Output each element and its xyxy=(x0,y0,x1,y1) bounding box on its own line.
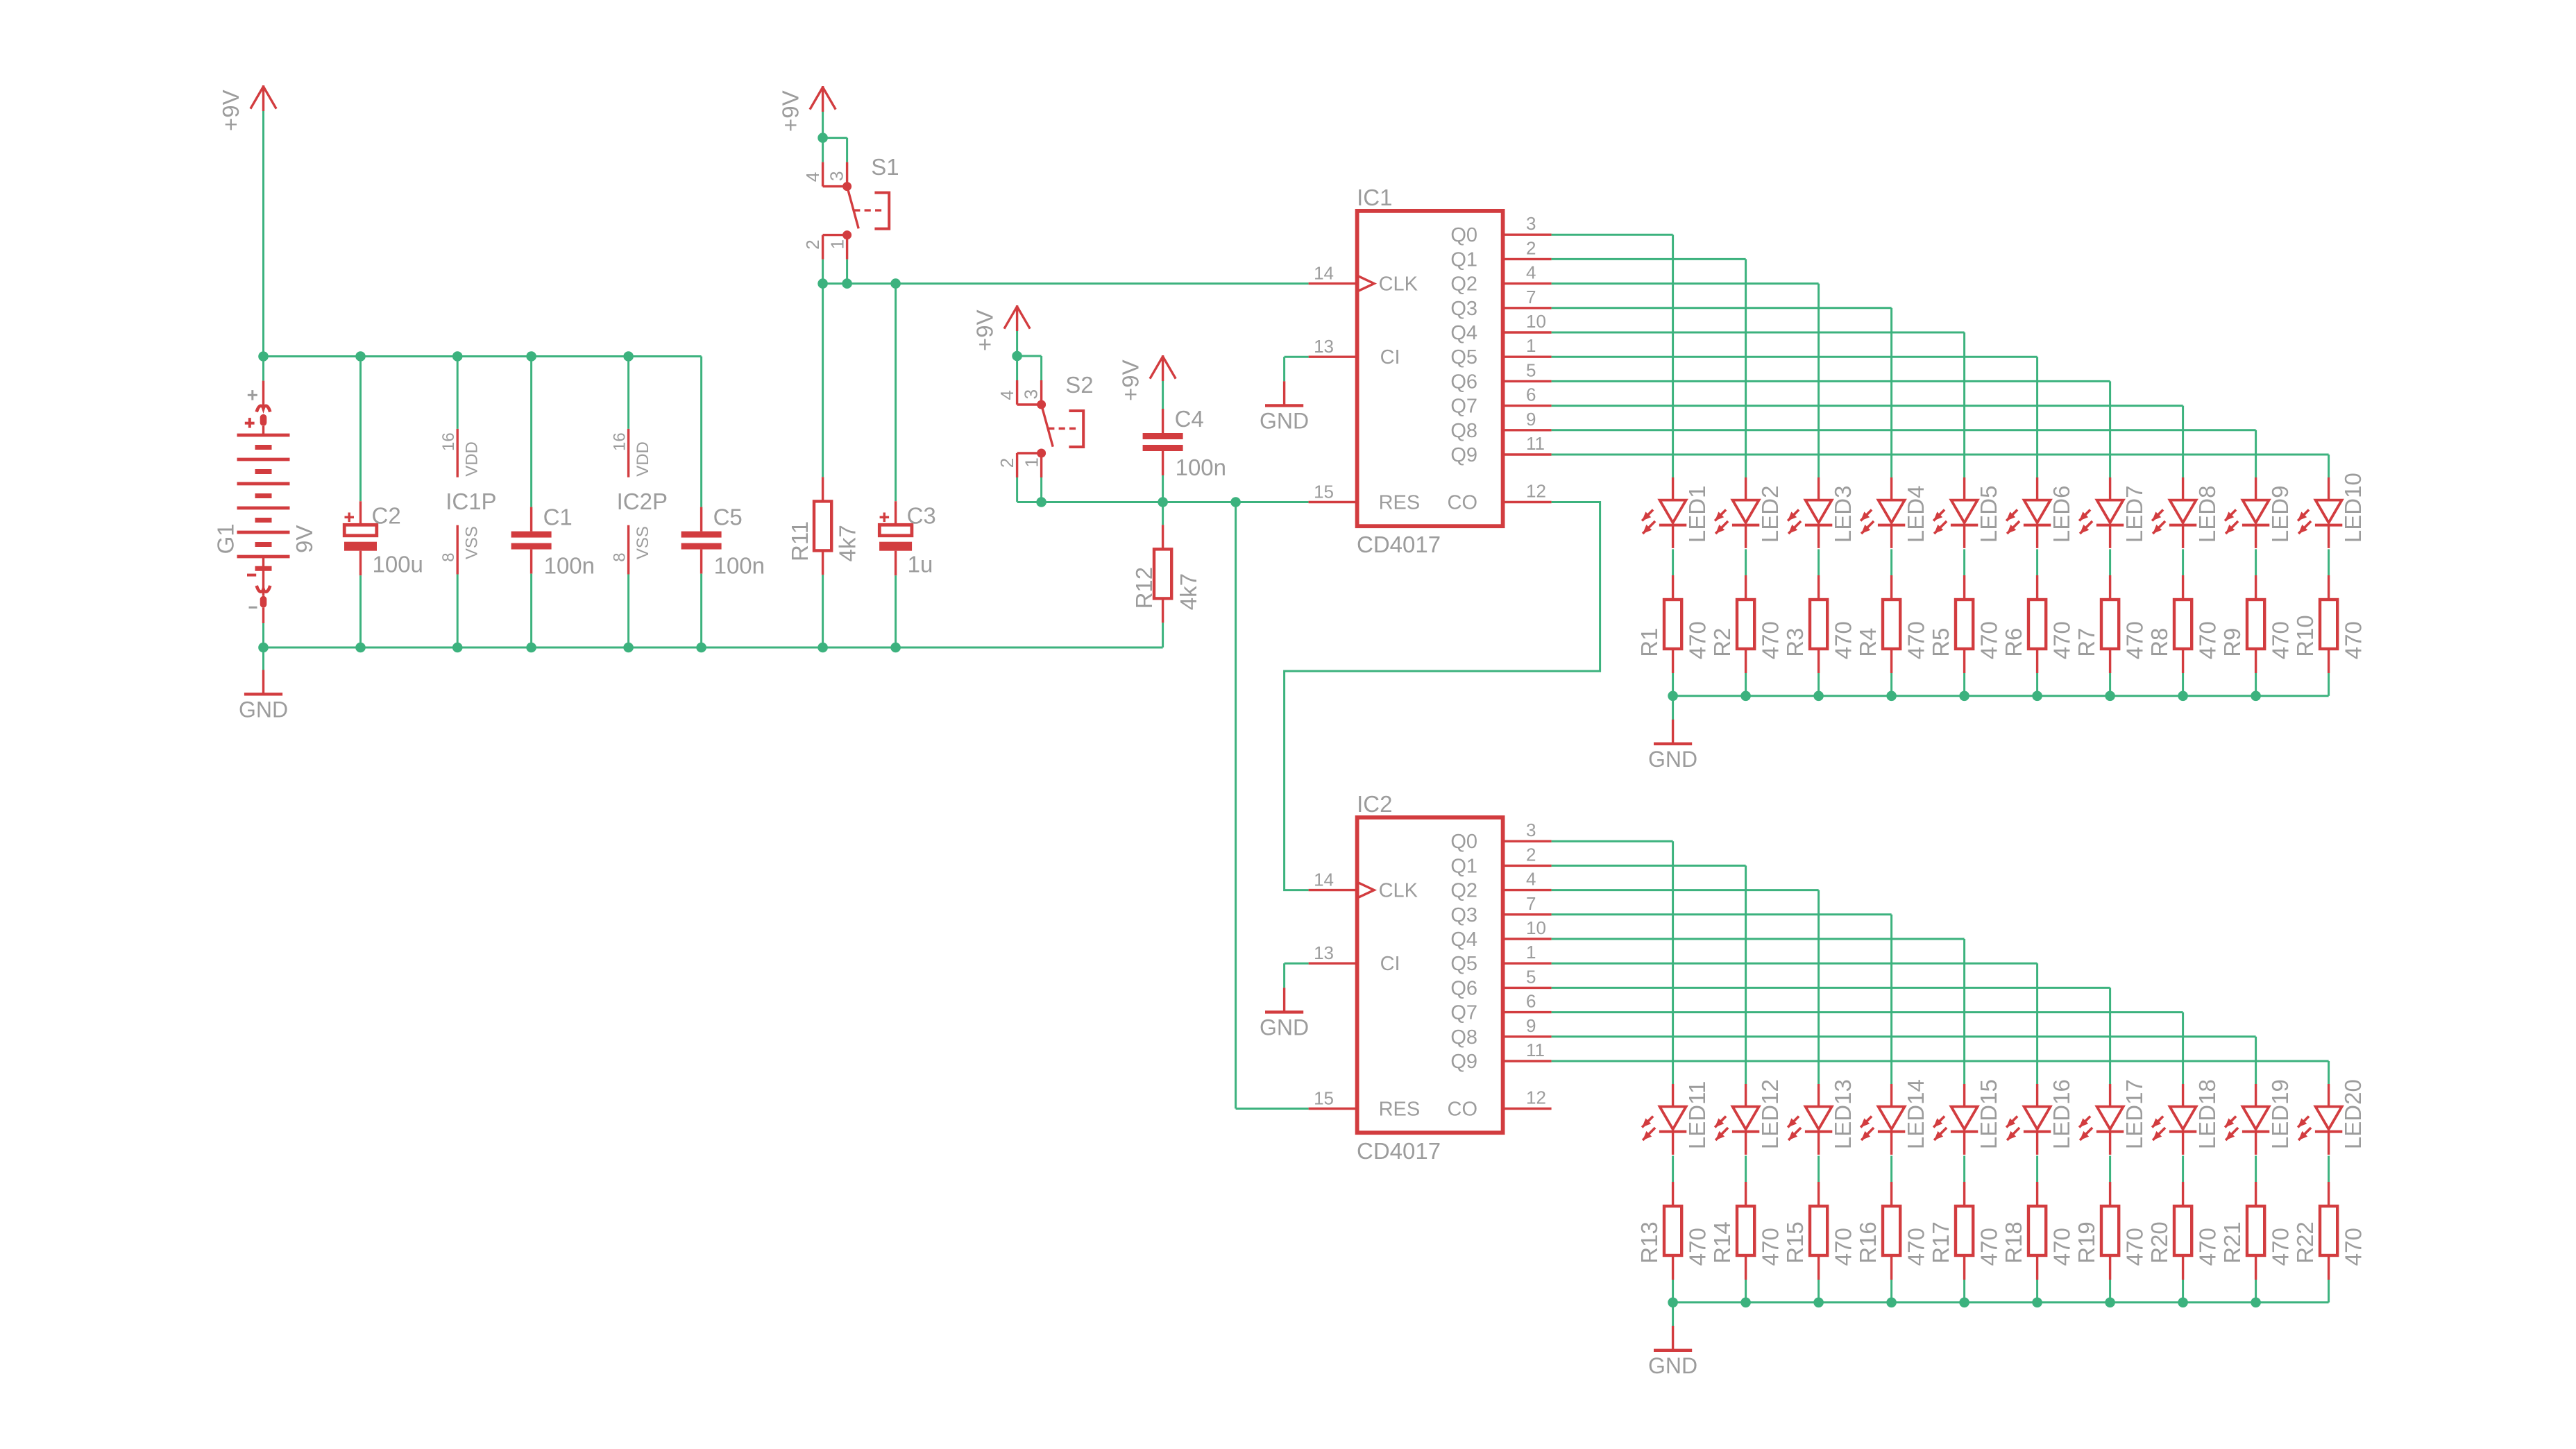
svg-text:100n: 100n xyxy=(544,553,595,579)
svg-text:R2: R2 xyxy=(1709,628,1735,657)
ground at IC2 CI xyxy=(1260,963,1309,1040)
svg-text:R5: R5 xyxy=(1928,628,1954,657)
svg-text:Q5: Q5 xyxy=(1450,346,1477,368)
svg-text:4: 4 xyxy=(1526,869,1536,890)
svg-text:IC1P: IC1P xyxy=(446,489,496,514)
LED LED16 xyxy=(2006,1079,2074,1155)
LED LED6 xyxy=(2006,477,2074,548)
LED LED19 xyxy=(2225,1079,2293,1155)
wire IC1 Q7 net xyxy=(1552,405,2183,407)
svg-text:470: 470 xyxy=(2049,1228,2075,1266)
svg-text:470: 470 xyxy=(1831,1228,1856,1266)
svg-text:R7: R7 xyxy=(2074,628,2099,657)
svg-text:470: 470 xyxy=(2341,1228,2366,1266)
capacitor C1 100n xyxy=(511,357,595,648)
wire +9V top rail xyxy=(264,355,702,357)
svg-text:7: 7 xyxy=(1526,893,1536,914)
svg-text:470: 470 xyxy=(2341,621,2366,659)
svg-text:CI: CI xyxy=(1380,346,1400,368)
svg-text:R10: R10 xyxy=(2292,615,2318,657)
svg-text:LED15: LED15 xyxy=(1976,1079,2001,1149)
svg-text:C5: C5 xyxy=(713,505,743,530)
svg-text:Q0: Q0 xyxy=(1450,831,1477,853)
resistor R15 470 xyxy=(1782,1155,1856,1302)
resistor R8 470 xyxy=(2146,549,2221,695)
svg-text:R16: R16 xyxy=(1855,1221,1881,1264)
svg-text:470: 470 xyxy=(2122,1228,2148,1266)
svg-text:LED16: LED16 xyxy=(2049,1079,2074,1149)
wire IC1 Q5 net xyxy=(1552,356,2037,358)
svg-text:RES: RES xyxy=(1379,1099,1421,1121)
svg-text:14: 14 xyxy=(1314,870,1334,890)
svg-text:R18: R18 xyxy=(2001,1221,2026,1264)
svg-text:R3: R3 xyxy=(1782,628,1808,657)
ground at LED bank2 xyxy=(1672,1303,1674,1327)
svg-text:7: 7 xyxy=(1526,287,1536,307)
svg-text:R15: R15 xyxy=(1782,1221,1808,1264)
svg-text:R6: R6 xyxy=(2001,628,2026,657)
wire IC1 Q3 net xyxy=(1552,307,1892,309)
svg-text:13: 13 xyxy=(1314,336,1334,357)
resistor R2 470 xyxy=(1709,549,1783,695)
svg-text:+9V: +9V xyxy=(1117,359,1143,401)
svg-text:R11: R11 xyxy=(787,521,813,561)
svg-text:LED1: LED1 xyxy=(1684,486,1710,543)
ground GND at battery xyxy=(262,647,264,670)
svg-text:LED18: LED18 xyxy=(2194,1079,2220,1149)
svg-text:470: 470 xyxy=(1976,621,2002,659)
wire IC1 Q4 net xyxy=(1552,332,1965,334)
svg-text:1u: 1u xyxy=(908,551,933,577)
LED LED4 xyxy=(1861,477,1929,548)
svg-text:CLK: CLK xyxy=(1379,273,1418,296)
svg-text:5: 5 xyxy=(1526,359,1536,380)
wire IC2 Q1 net xyxy=(1552,865,1746,867)
resistor R21 470 xyxy=(2219,1155,2294,1302)
svg-text:LED11: LED11 xyxy=(1684,1081,1710,1149)
svg-text:R13: R13 xyxy=(1636,1221,1662,1264)
wire IC1 Q0 net xyxy=(1552,234,1673,236)
svg-text:100n: 100n xyxy=(1176,455,1226,480)
resistor R14 470 xyxy=(1709,1155,1783,1302)
+9V supply at battery xyxy=(218,85,276,131)
IC IC2 CD4017 xyxy=(1357,791,1503,1164)
svg-text:CO: CO xyxy=(1448,1099,1478,1121)
svg-text:GND: GND xyxy=(1260,1015,1309,1040)
svg-text:4: 4 xyxy=(997,390,1017,400)
svg-text:470: 470 xyxy=(1904,621,1929,659)
svg-text:CD4017: CD4017 xyxy=(1357,532,1441,557)
svg-text:LED6: LED6 xyxy=(2049,486,2074,543)
resistor R6 470 xyxy=(2001,549,2075,695)
resistor R7 470 xyxy=(2074,549,2148,695)
svg-text:RES: RES xyxy=(1379,492,1421,514)
switch S1 xyxy=(802,133,899,283)
svg-text:470: 470 xyxy=(1685,1228,1711,1266)
wire IC1 Q8 net xyxy=(1552,429,2256,431)
svg-text:9V: 9V xyxy=(291,525,317,553)
svg-text:GND: GND xyxy=(1648,1353,1697,1378)
svg-text:R17: R17 xyxy=(1928,1221,1954,1264)
resistor R20 470 xyxy=(2146,1155,2221,1302)
wire RES to IC2 xyxy=(1235,502,1237,1109)
svg-text:VSS: VSS xyxy=(634,526,652,559)
svg-text:+9V: +9V xyxy=(777,90,803,132)
svg-text:2: 2 xyxy=(1526,237,1536,258)
svg-text:4: 4 xyxy=(802,172,823,182)
svg-text:14: 14 xyxy=(1314,263,1334,284)
svg-text:Q2: Q2 xyxy=(1450,880,1477,902)
svg-text:470: 470 xyxy=(1758,621,1783,659)
svg-text:1: 1 xyxy=(1526,942,1536,963)
svg-text:Q8: Q8 xyxy=(1450,1026,1477,1049)
svg-text:Q8: Q8 xyxy=(1450,420,1477,442)
svg-text:470: 470 xyxy=(2195,1228,2221,1266)
wire IC2 Q2 net xyxy=(1552,889,1819,891)
wire IC1 Q2 net xyxy=(1552,282,1819,285)
svg-text:LED9: LED9 xyxy=(2267,486,2293,543)
svg-text:10: 10 xyxy=(1526,311,1546,332)
resistor R10 470 xyxy=(2292,549,2366,695)
wire CLK net xyxy=(823,282,1309,285)
svg-text:+9V: +9V xyxy=(972,310,997,351)
LED LED9 xyxy=(2225,477,2293,548)
svg-text:1: 1 xyxy=(1021,457,1042,467)
svg-text:VDD: VDD xyxy=(463,441,482,477)
wire IC2 Q4 net xyxy=(1552,938,1965,940)
LED LED7 xyxy=(2079,477,2147,548)
wire battery +9V vertical xyxy=(262,111,264,357)
svg-text:S1: S1 xyxy=(871,154,899,180)
svg-text:VDD: VDD xyxy=(634,441,652,477)
resistor R11 4k7 xyxy=(787,284,860,647)
resistor R22 470 xyxy=(2292,1155,2366,1302)
svg-text:LED4: LED4 xyxy=(1903,486,1929,543)
switch S2 xyxy=(997,351,1094,502)
svg-text:Q2: Q2 xyxy=(1450,273,1477,296)
svg-text:15: 15 xyxy=(1314,482,1334,502)
svg-text:470: 470 xyxy=(1976,1228,2002,1266)
battery G1 9V xyxy=(213,357,318,648)
svg-text:LED3: LED3 xyxy=(1830,486,1856,543)
svg-text:Q1: Q1 xyxy=(1450,855,1477,877)
svg-text:CI: CI xyxy=(1380,953,1400,975)
svg-text:Q6: Q6 xyxy=(1450,371,1477,393)
wire IC2 Q9 net xyxy=(1552,1060,2329,1062)
+9V supply at S2 xyxy=(972,305,1030,351)
svg-text:LED12: LED12 xyxy=(1757,1079,1783,1149)
svg-text:3: 3 xyxy=(1526,213,1536,234)
svg-text:C3: C3 xyxy=(907,502,936,528)
svg-text:470: 470 xyxy=(1685,621,1711,659)
svg-text:100n: 100n xyxy=(714,553,765,579)
svg-text:470: 470 xyxy=(2195,621,2221,659)
svg-text:Q3: Q3 xyxy=(1450,298,1477,320)
LED LED8 xyxy=(2152,477,2220,548)
svg-text:12: 12 xyxy=(1526,481,1546,502)
resistor R4 470 xyxy=(1855,549,1929,695)
svg-text:LED8: LED8 xyxy=(2194,486,2220,543)
svg-text:R22: R22 xyxy=(2292,1221,2318,1264)
wire IC2 Q5 net xyxy=(1552,963,2037,965)
LED LED15 xyxy=(1933,1079,2001,1155)
svg-text:LED13: LED13 xyxy=(1830,1079,1856,1149)
svg-text:10: 10 xyxy=(1526,917,1546,938)
svg-text:Q7: Q7 xyxy=(1450,396,1477,418)
svg-text:LED20: LED20 xyxy=(2340,1079,2366,1149)
svg-text:3: 3 xyxy=(1526,820,1536,840)
wire IC2 Q0 net xyxy=(1552,840,1673,842)
wire IC2 Q8 net xyxy=(1552,1035,2256,1037)
svg-text:LED17: LED17 xyxy=(2121,1079,2147,1149)
svg-text:15: 15 xyxy=(1314,1088,1334,1109)
power pins IC2P VDD/VSS xyxy=(611,357,668,648)
svg-text:IC1: IC1 xyxy=(1357,185,1392,210)
svg-text:2: 2 xyxy=(802,239,823,249)
wire IC1 Q6 net xyxy=(1552,380,2110,382)
svg-text:GND: GND xyxy=(1648,747,1697,772)
LED LED18 xyxy=(2152,1079,2220,1155)
IC2 pin stubs left xyxy=(1309,870,1357,1109)
svg-text:6: 6 xyxy=(1526,384,1536,405)
svg-text:Q9: Q9 xyxy=(1450,444,1477,466)
svg-text:470: 470 xyxy=(1831,621,1856,659)
svg-text:9: 9 xyxy=(1526,1015,1536,1036)
svg-text:Q0: Q0 xyxy=(1450,224,1477,246)
svg-text:Q7: Q7 xyxy=(1450,1002,1477,1024)
svg-text:IC2P: IC2P xyxy=(617,489,668,514)
svg-text:4k7: 4k7 xyxy=(834,525,860,561)
svg-text:470: 470 xyxy=(2049,621,2075,659)
svg-text:Q5: Q5 xyxy=(1450,953,1477,975)
svg-text:1: 1 xyxy=(1526,335,1536,356)
LED LED1 xyxy=(1642,477,1710,548)
svg-text:C2: C2 xyxy=(372,502,401,528)
svg-text:CD4017: CD4017 xyxy=(1357,1138,1441,1164)
svg-text:R19: R19 xyxy=(2074,1221,2099,1264)
svg-text:6: 6 xyxy=(1526,991,1536,1012)
svg-text:2: 2 xyxy=(997,458,1017,468)
svg-text:100u: 100u xyxy=(373,551,423,577)
svg-text:Q9: Q9 xyxy=(1450,1051,1477,1073)
resistor R12 4k7 xyxy=(1131,502,1201,648)
svg-text:11: 11 xyxy=(1526,433,1545,454)
LED LED11 xyxy=(1642,1081,1710,1155)
svg-text:470: 470 xyxy=(2268,621,2294,659)
LED LED14 xyxy=(1861,1079,1929,1155)
svg-text:5: 5 xyxy=(1526,966,1536,987)
+9V supply at C4 xyxy=(1117,355,1176,401)
svg-text:16: 16 xyxy=(611,432,629,451)
junction dots bottom rail xyxy=(258,643,269,653)
svg-text:4k7: 4k7 xyxy=(1176,573,1201,610)
svg-text:S2: S2 xyxy=(1065,372,1093,398)
junction dots top rail xyxy=(258,351,269,362)
svg-text:LED19: LED19 xyxy=(2267,1079,2293,1149)
svg-text:LED10: LED10 xyxy=(2340,473,2366,543)
power pins IC1P VDD/VSS xyxy=(439,357,496,648)
svg-text:+9V: +9V xyxy=(218,90,244,131)
ground at LED bank1 xyxy=(1672,696,1674,720)
svg-text:GND: GND xyxy=(239,697,288,722)
svg-text:470: 470 xyxy=(1758,1228,1783,1266)
svg-text:4: 4 xyxy=(1526,262,1536,283)
svg-text:16: 16 xyxy=(439,432,458,451)
svg-text:GND: GND xyxy=(1260,408,1309,433)
svg-text:470: 470 xyxy=(1904,1228,1929,1266)
svg-text:C1: C1 xyxy=(543,505,573,530)
wire GND bottom rail xyxy=(264,647,1163,649)
svg-text:R4: R4 xyxy=(1855,628,1881,657)
+9V supply at S1 xyxy=(777,86,836,132)
resistor R17 470 xyxy=(1928,1155,2002,1302)
svg-text:Q1: Q1 xyxy=(1450,248,1477,271)
svg-text:CO: CO xyxy=(1448,492,1478,514)
wire IC1 Q9 net xyxy=(1552,454,2329,456)
svg-text:Q3: Q3 xyxy=(1450,904,1477,926)
wire C4 supply xyxy=(1162,381,1164,401)
wire S1 supply xyxy=(822,112,824,138)
wire RES net xyxy=(1017,501,1309,503)
resistor R5 470 xyxy=(1928,549,2002,695)
svg-text:8: 8 xyxy=(611,552,629,561)
svg-text:470: 470 xyxy=(2268,1228,2294,1266)
resistor R1 470 xyxy=(1636,549,1711,695)
svg-text:LED7: LED7 xyxy=(2121,486,2147,543)
svg-text:11: 11 xyxy=(1526,1040,1545,1060)
LED LED2 xyxy=(1715,477,1783,548)
svg-text:Q6: Q6 xyxy=(1450,977,1477,999)
capacitor C2 100u xyxy=(344,357,423,648)
wire LED bank2 ground rail xyxy=(1673,1301,2329,1303)
svg-text:Q4: Q4 xyxy=(1450,929,1477,951)
svg-text:470: 470 xyxy=(2122,621,2148,659)
svg-text:IC2: IC2 xyxy=(1357,791,1392,817)
svg-text:R1: R1 xyxy=(1636,628,1662,657)
capacitor C3 1u xyxy=(879,284,936,647)
resistor R16 470 xyxy=(1855,1155,1929,1302)
svg-text:R20: R20 xyxy=(2146,1221,2172,1264)
wire LED bank1 ground rail xyxy=(1673,695,2329,697)
svg-text:13: 13 xyxy=(1314,942,1334,963)
svg-text:12: 12 xyxy=(1526,1087,1546,1108)
svg-text:8: 8 xyxy=(439,552,458,561)
svg-text:LED2: LED2 xyxy=(1757,486,1783,543)
IC1 pin stubs right xyxy=(1503,213,1552,502)
wire S2 supply xyxy=(1016,331,1018,356)
wire IC2 Q7 net xyxy=(1552,1011,2183,1013)
svg-text:R12: R12 xyxy=(1131,567,1157,609)
svg-text:R8: R8 xyxy=(2146,628,2172,657)
svg-text:R14: R14 xyxy=(1709,1221,1735,1264)
svg-text:1: 1 xyxy=(827,239,847,249)
LED LED3 xyxy=(1788,477,1856,548)
capacitor C5 100n xyxy=(681,357,765,648)
resistor R18 470 xyxy=(2001,1155,2075,1302)
svg-text:R21: R21 xyxy=(2219,1221,2245,1264)
IC IC1 CD4017 xyxy=(1357,185,1503,557)
svg-text:Q4: Q4 xyxy=(1450,322,1477,344)
wire IC2 Q6 net xyxy=(1552,987,2110,989)
svg-text:3: 3 xyxy=(827,171,847,181)
LED LED10 xyxy=(2298,473,2366,548)
IC2 pin stubs right xyxy=(1503,820,1552,1108)
svg-text:9: 9 xyxy=(1526,409,1536,430)
svg-text:C4: C4 xyxy=(1175,406,1204,432)
ground at IC1 CI xyxy=(1260,357,1309,433)
svg-text:G1: G1 xyxy=(213,523,239,554)
wire IC1 CO to IC2 CLK xyxy=(1285,502,1600,890)
LED LED5 xyxy=(1933,477,2001,548)
LED LED20 xyxy=(2298,1079,2366,1155)
resistor R13 470 xyxy=(1636,1155,1711,1302)
resistor R9 470 xyxy=(2219,549,2294,695)
wire IC2 Q3 net xyxy=(1552,913,1892,915)
svg-text:CLK: CLK xyxy=(1379,880,1418,902)
svg-text:2: 2 xyxy=(1526,844,1536,865)
IC1 pin stubs left xyxy=(1309,263,1357,502)
svg-text:LED14: LED14 xyxy=(1903,1079,1929,1149)
capacitor C4 100n xyxy=(1143,401,1226,502)
resistor R3 470 xyxy=(1782,549,1856,695)
LED LED17 xyxy=(2079,1079,2147,1155)
svg-text:R9: R9 xyxy=(2219,628,2245,657)
svg-text:LED5: LED5 xyxy=(1976,486,2001,543)
LED LED12 xyxy=(1715,1079,1783,1155)
svg-text:VSS: VSS xyxy=(463,526,482,559)
LED LED13 xyxy=(1788,1079,1856,1155)
svg-text:3: 3 xyxy=(1021,389,1042,399)
resistor R19 470 xyxy=(2074,1155,2148,1302)
wire IC1 Q1 net xyxy=(1552,258,1746,260)
